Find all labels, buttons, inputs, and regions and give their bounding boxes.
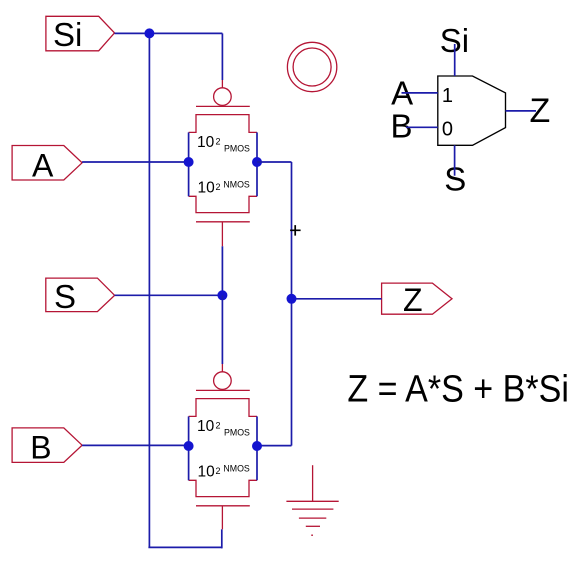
wire node S to TG2 PMOS gate [221,295,223,364]
transistor M3 PMOS body [189,399,257,417]
junction TG1 left [184,157,194,167]
svg-text:NMOS: NMOS [223,180,250,190]
transistor M4 NMOS gate plate [196,505,250,507]
wire TG2 left side [188,416,190,480]
wire TG1 NMOS gate to node S [221,246,223,295]
svg-text:2: 2 [216,421,221,431]
svg-text:Z = A*S + B*Si: Z = A*S + B*Si [347,368,569,410]
svg-text:PMOS: PMOS [224,144,250,154]
mux wire B [406,126,438,128]
mux U1 body [438,76,506,145]
marker double circle [287,42,336,91]
transistor M1 PMOS body [189,115,257,133]
svg-text:10: 10 [198,180,216,197]
input pin A [12,146,82,181]
svg-text:10: 10 [197,134,215,151]
wire Si down to TG1 PMOS gate [221,33,223,80]
input pin S [46,278,115,312]
transistor M1 PMOS bubble [214,88,232,106]
value label M1 10/2 PMOS [197,134,250,154]
mux stem S [454,145,456,175]
transistor M3 PMOS gate plate [196,389,250,391]
svg-text:2: 2 [216,182,221,192]
wire S to gate stem junction [115,294,223,296]
transistor M2 NMOS gate stem [221,222,223,247]
input pin B [12,428,82,463]
svg-text:S: S [54,278,76,315]
wire bottom stem up to TG2 NMOS gate [221,529,223,548]
svg-text:Si: Si [53,16,82,53]
svg-text:2: 2 [216,466,221,476]
svg-text:A: A [32,148,54,184]
junction node Si [144,28,154,38]
wire output junction to pin Z [292,298,382,300]
svg-text:B: B [30,429,51,465]
junction node S [217,290,227,300]
mux wire A [402,92,438,94]
ground [286,465,338,535]
mux wire Z [506,110,537,112]
input pin Si [46,16,115,51]
transistor M1 PMOS gate stem [221,80,223,88]
wire TG1 right side [256,132,258,196]
output pin Z [382,283,452,314]
junction node Z [287,294,297,304]
wire A to TG1 left terminal [82,161,189,163]
wire TG1 left side [188,132,190,196]
value label M4 10/2 NMOS [198,464,250,481]
svg-text:0: 0 [442,119,453,141]
transistor M3 PMOS bubble [214,372,232,390]
wire bottom horizontal [148,546,221,548]
svg-text:Z: Z [403,282,423,318]
wire B to TG2 left terminal [82,444,189,446]
svg-text:B: B [391,108,413,145]
svg-text:NMOS: NMOS [223,464,250,474]
transistor M1 PMOS gate plate [196,105,250,107]
svg-text:10: 10 [198,464,216,481]
transistor M4 NMOS gate stem [221,506,223,530]
transistor M2 NMOS body [189,196,257,212]
svg-text:1: 1 [442,85,453,107]
wire Si pin to TG1 gate column [115,32,223,34]
mux stem Si [454,44,456,76]
transistor M2 NMOS gate plate [196,221,250,223]
transistor M3 PMOS gate stem [221,364,223,372]
svg-text:10: 10 [197,418,215,435]
transistor M4 NMOS body [189,480,257,496]
value label M2 10/2 NMOS [198,180,250,197]
junction TG2 left [184,441,194,451]
value label M3 10/2 PMOS [197,418,250,438]
wire output bus vertical [291,162,293,446]
junction TG2 right [252,441,262,451]
junction TG1 right [252,157,262,167]
highlight cursor cross [290,225,301,236]
svg-text:2: 2 [216,137,221,147]
wire output bus to TG2 right [257,445,292,447]
wire TG2 right side [256,416,258,480]
wire Si vertical trunk [148,33,150,547]
svg-text:PMOS: PMOS [224,428,250,438]
wire TG1 right to output bus [257,161,292,163]
